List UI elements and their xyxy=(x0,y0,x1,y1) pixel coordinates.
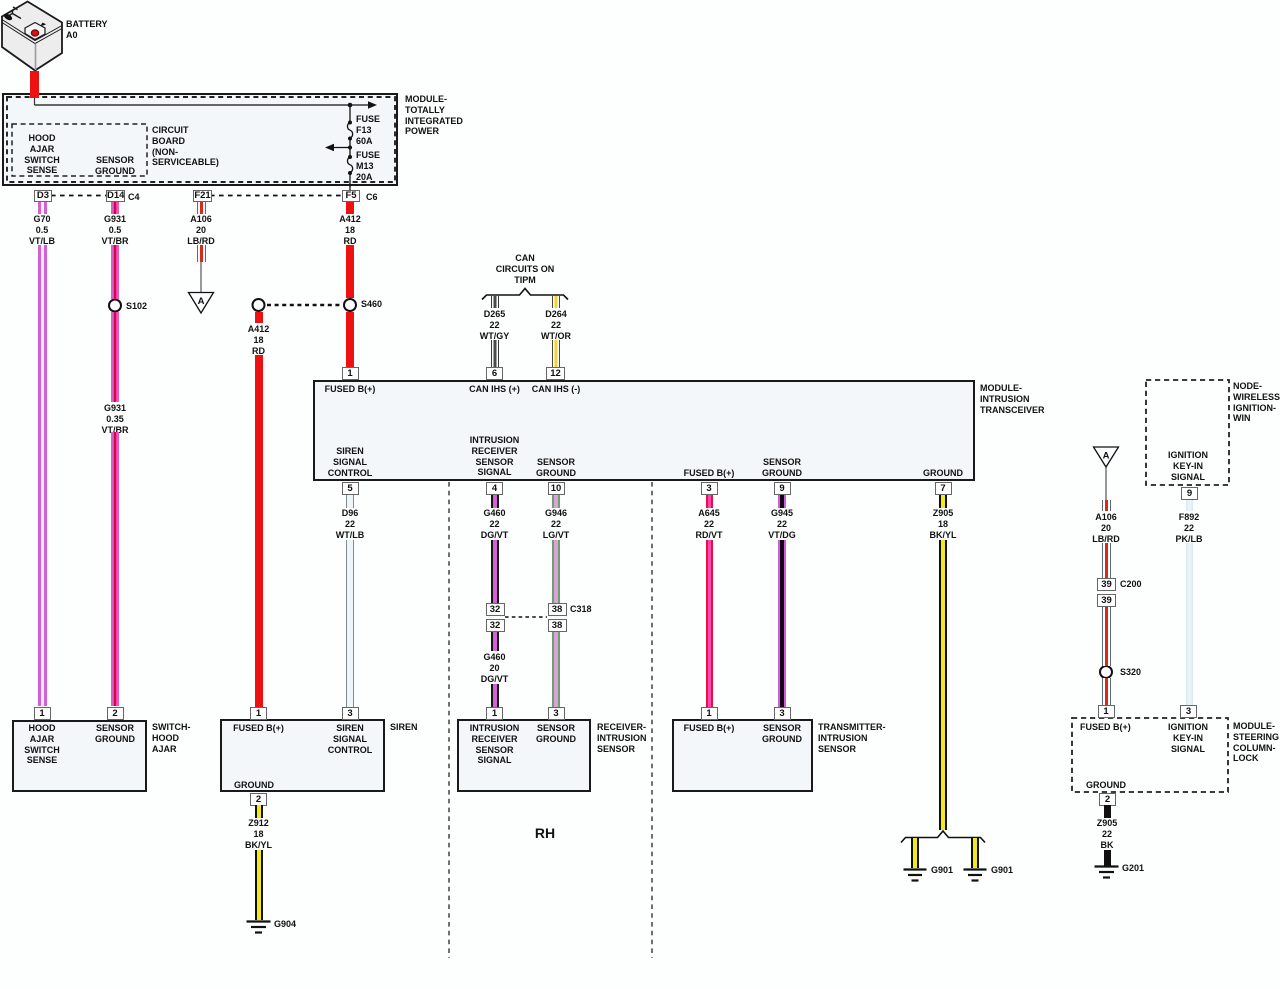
wire Z905 xyxy=(939,540,947,830)
CAN brace xyxy=(482,289,568,300)
label G931 0.35 xyxy=(55,403,175,435)
connector F5 xyxy=(342,190,360,202)
pin 1 module top xyxy=(342,367,359,380)
wire A412 upper xyxy=(346,245,354,298)
label D264 xyxy=(496,309,616,341)
pin 9 module bottom xyxy=(774,482,791,495)
label node wireless ignition win xyxy=(1233,381,1280,424)
wire G931 mid xyxy=(111,312,119,402)
bus wire with right arrow xyxy=(35,104,369,106)
label S460 xyxy=(361,299,382,310)
label siren xyxy=(390,722,418,733)
connector 32 lower xyxy=(486,619,505,632)
module TIPM box xyxy=(2,93,398,186)
label sensor ground (internal) xyxy=(55,155,175,177)
wire battery to TIPM xyxy=(30,71,39,98)
pin 5 module bottom xyxy=(342,482,359,495)
label G945 xyxy=(722,508,842,540)
pin 2 steering bottom xyxy=(1099,793,1116,806)
wire G460 stub xyxy=(491,495,499,508)
pin 3 steering xyxy=(1180,705,1197,718)
label G901 left xyxy=(931,865,953,876)
off-page connector A (left) xyxy=(200,262,202,293)
wire G946 stub xyxy=(552,495,560,508)
label siren signal control (module) xyxy=(290,446,410,478)
pin 12 module top xyxy=(546,367,565,380)
pin 9 node xyxy=(1181,487,1198,500)
separator dashed right xyxy=(651,482,653,958)
battery negative terminal mark xyxy=(3,12,14,21)
label G931 0.5 xyxy=(55,214,175,246)
label fuse M13 20A xyxy=(356,150,380,182)
switch hood ajar box xyxy=(12,720,147,792)
label D96 xyxy=(290,508,410,540)
wire G460 upper xyxy=(491,540,499,603)
pin 1 receiver xyxy=(486,707,503,720)
wire D264 xyxy=(552,340,560,367)
connector D14 xyxy=(106,190,125,202)
label transmitter intrusion sensor xyxy=(818,722,886,754)
label receiver intrusion sensor xyxy=(597,722,647,754)
wire D96 xyxy=(346,540,354,707)
pin 3 transmitter xyxy=(774,707,791,720)
connector F21 xyxy=(193,190,212,202)
junction node xyxy=(348,103,353,108)
off-page connector A (right) xyxy=(1105,467,1107,500)
label G201 xyxy=(1122,863,1144,874)
label S320 xyxy=(1120,667,1141,678)
svg-text:A: A xyxy=(198,296,205,307)
wire F892 stub xyxy=(1186,500,1193,511)
label module intrusion transceiver xyxy=(980,383,1045,415)
ground G901 right xyxy=(964,870,987,881)
node A412 branch xyxy=(253,299,265,311)
wire A106 right upper xyxy=(1102,543,1111,578)
label A106 right xyxy=(1046,512,1166,544)
connector link D3-D14 xyxy=(51,195,107,197)
wire G931 upper xyxy=(111,245,119,299)
wire A106 lower xyxy=(197,245,206,262)
label sensor ground (receiver) xyxy=(496,723,616,745)
label sensor ground (module pin9) xyxy=(722,457,842,479)
label CAN circuits on TIPM xyxy=(465,253,585,285)
label F892 xyxy=(1129,512,1249,544)
label ground (module pin7) xyxy=(883,468,1003,479)
pin 3 receiver xyxy=(548,707,565,720)
pin 4 module bottom xyxy=(486,482,503,495)
label fused b+ (siren) xyxy=(199,723,319,734)
connector 39 upper xyxy=(1097,578,1116,591)
svg-text:A: A xyxy=(1103,451,1110,462)
label can ihs minus xyxy=(496,384,616,395)
transmitter intrusion sensor box xyxy=(672,719,813,792)
battery flag mark xyxy=(41,23,47,26)
wire A106 right lower xyxy=(1102,607,1111,666)
wire Z912 stub xyxy=(255,805,263,818)
wire Z905 BK stub xyxy=(1104,805,1111,818)
wire Z905 stub xyxy=(939,495,947,508)
label C6 xyxy=(366,192,378,203)
wire fuse feed vertical xyxy=(349,105,351,123)
pin 1 siren xyxy=(250,707,267,720)
splice S102 xyxy=(109,300,121,312)
fuse F13 60A xyxy=(347,123,352,139)
circuit board dashed box xyxy=(12,124,147,176)
wire between fuses xyxy=(349,138,351,157)
label intrusion receiver sensor signal (module) xyxy=(435,435,555,478)
wire Z905 branch left xyxy=(911,838,919,868)
connector 38 upper xyxy=(548,603,567,616)
splice S460 xyxy=(344,299,356,311)
label RH xyxy=(485,828,605,839)
wire battery feed inside TIPM xyxy=(34,97,36,105)
wire fuse M13 to connector F5 xyxy=(349,173,351,191)
label sensor ground (transmitter) xyxy=(722,723,842,745)
label ground (siren) xyxy=(234,780,274,791)
wire G945 xyxy=(778,540,786,707)
wire A645 stub xyxy=(706,495,713,508)
connector C318 dashed link xyxy=(505,616,547,618)
wire D264 stub xyxy=(552,296,560,308)
label fuse F13 60A xyxy=(356,114,380,146)
label G460 20 xyxy=(435,652,555,684)
ground G901 left xyxy=(904,870,927,881)
connector 39 lower xyxy=(1097,594,1116,607)
wire G945 stub xyxy=(778,495,786,508)
connector link F21-F5 xyxy=(210,195,342,197)
wire G931 lower xyxy=(111,432,119,706)
label siren signal control (siren) xyxy=(290,723,410,755)
label fused b+ (module pin3) xyxy=(649,468,769,479)
label module TIPM xyxy=(405,94,463,137)
label fused b+ (transmitter) xyxy=(649,723,769,734)
wire A412 to module xyxy=(346,312,354,367)
label C4 xyxy=(128,192,140,203)
wire F892 xyxy=(1186,543,1193,705)
label G460 22 xyxy=(435,508,555,540)
wire A645 xyxy=(706,540,713,707)
fuse M13 20A xyxy=(347,157,352,173)
wire G946 upper xyxy=(552,540,560,603)
label ignition key-in signal (steering) xyxy=(1128,722,1248,754)
wire G70 stub xyxy=(38,202,47,214)
label Z905 BK xyxy=(1047,818,1167,850)
pin 6 module top xyxy=(486,367,503,380)
wire A412 branch xyxy=(255,355,263,707)
wire G460 lower xyxy=(491,684,499,707)
ground split bus Z905 xyxy=(901,831,985,843)
label G70 xyxy=(0,214,102,246)
wire D265 xyxy=(491,340,499,367)
wire G460 mid xyxy=(491,632,499,651)
label node wireless ignition win (internal) xyxy=(1128,450,1248,482)
label circuit board xyxy=(152,125,219,168)
label S102 xyxy=(126,301,147,312)
splice link dashed xyxy=(267,304,341,306)
pin 10 module bottom xyxy=(548,482,565,495)
battery A0 xyxy=(2,2,62,71)
wire G70 xyxy=(38,245,47,706)
module intrusion transceiver box xyxy=(313,380,975,481)
pin 3 siren xyxy=(342,707,359,720)
label Z912 xyxy=(199,818,319,850)
label G901 right xyxy=(991,865,1013,876)
label A412 top xyxy=(290,214,410,246)
module steering column lock dashed box xyxy=(1072,718,1228,792)
label battery xyxy=(66,19,108,41)
wire Z905 BK xyxy=(1104,850,1111,866)
pin 7 module bottom xyxy=(935,482,952,495)
pin 1 transmitter xyxy=(701,707,718,720)
wire G931 stub xyxy=(111,202,119,214)
label Z905 xyxy=(883,508,1003,540)
label A412 branch xyxy=(199,324,319,356)
label sensor ground (switch) xyxy=(55,723,175,745)
wire G946 lower xyxy=(552,632,560,707)
ground G904 xyxy=(247,922,271,933)
wire Z905 branch right xyxy=(971,838,979,868)
label module steering column lock xyxy=(1233,721,1279,764)
label fused b+ (steering) xyxy=(1080,722,1131,733)
label C318 xyxy=(570,604,592,615)
pin 3 module bottom xyxy=(701,482,718,495)
wire Z912 xyxy=(255,850,263,920)
wire D265 stub xyxy=(491,296,499,308)
pin 2 switch xyxy=(107,707,124,720)
label sensor ground (module pin10) xyxy=(496,457,616,479)
label A645 xyxy=(649,508,769,540)
wire A106 right to pin xyxy=(1102,678,1111,705)
receiver intrusion sensor box xyxy=(457,719,591,792)
label hood ajar switch sense (switch) xyxy=(0,723,102,766)
connector D3 xyxy=(34,190,52,202)
node wireless ignition dashed box xyxy=(1146,380,1229,485)
wire D96 stub xyxy=(346,495,354,508)
wire left arrow tap xyxy=(334,147,350,149)
pin 1 steering xyxy=(1098,705,1115,718)
connector 32 upper xyxy=(486,603,505,616)
label intrusion receiver sensor signal (receiver) xyxy=(435,723,555,766)
wire A106 stub xyxy=(197,202,206,214)
label fused b+ top xyxy=(290,384,410,395)
battery positive terminal xyxy=(31,30,38,36)
label can ihs plus xyxy=(435,384,555,395)
pin 2 siren bottom xyxy=(250,793,267,806)
label D265 xyxy=(435,309,555,341)
label G946 xyxy=(496,508,616,540)
wire A412 branch stub xyxy=(255,312,263,323)
siren box xyxy=(220,719,385,792)
splice S320 xyxy=(1100,666,1112,678)
ground G201 xyxy=(1095,867,1119,878)
label ground (steering) xyxy=(1086,780,1126,791)
label switch hood ajar xyxy=(152,722,191,754)
label A106 xyxy=(141,214,261,246)
connector 38 lower xyxy=(548,619,567,632)
pin 1 switch xyxy=(34,707,51,720)
label G904 xyxy=(274,919,296,930)
wire A412 stub xyxy=(346,202,354,214)
TIPM inner dashed border xyxy=(7,97,395,182)
label hood ajar switch sense (internal) xyxy=(0,133,102,176)
separator dashed left xyxy=(448,482,450,958)
label C200 xyxy=(1120,579,1142,590)
wire A106 right stub xyxy=(1102,500,1111,511)
